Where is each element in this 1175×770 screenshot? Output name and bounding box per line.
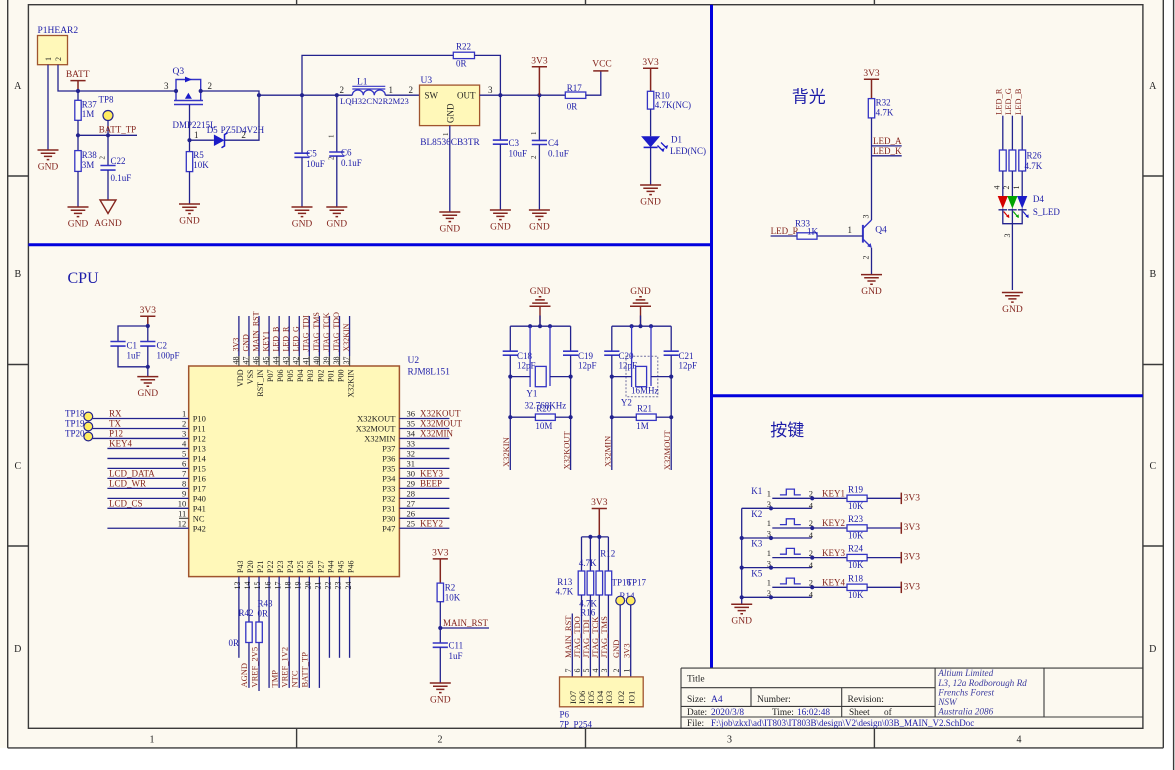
svg-text:1: 1 xyxy=(767,548,771,558)
ground GND under C1 C2 xyxy=(137,377,158,387)
pin 29 P33 of U2 right xyxy=(399,487,449,489)
svg-text:Sheet: Sheet xyxy=(849,708,870,718)
svg-text:LCD_WR: LCD_WR xyxy=(109,478,146,488)
svg-text:P22: P22 xyxy=(266,561,275,573)
wire P1 pin2 to BATT node xyxy=(58,65,176,91)
svg-text:38: 38 xyxy=(332,357,341,365)
svg-text:KEY2: KEY2 xyxy=(420,518,443,528)
pin 4 P13 of U2 left xyxy=(107,447,188,449)
svg-text:KEY2: KEY2 xyxy=(822,518,845,528)
svg-text:Number:: Number: xyxy=(757,695,791,705)
resistor R23 10K xyxy=(812,527,847,529)
pin 30 P34 of U2 right xyxy=(399,477,449,479)
pin 10 P41 of U2 left xyxy=(107,507,188,509)
svg-text:47: 47 xyxy=(241,357,250,365)
svg-text:9: 9 xyxy=(182,489,186,499)
svg-text:1: 1 xyxy=(194,130,199,140)
svg-text:17: 17 xyxy=(273,582,282,590)
svg-text:P30: P30 xyxy=(382,513,395,523)
svg-text:5: 5 xyxy=(582,669,591,673)
svg-text:6: 6 xyxy=(182,459,186,469)
node rail / R22 riser / C5 xyxy=(300,93,304,97)
svg-text:of: of xyxy=(884,707,893,718)
resistor R22 0R bypass xyxy=(302,55,453,95)
resistor R32 4.7K xyxy=(868,99,874,118)
pin 27 P31 of U2 right xyxy=(399,507,449,509)
power port VCC xyxy=(586,71,601,95)
power port 3V3 row K1 xyxy=(867,497,901,499)
svg-text:P6: P6 xyxy=(560,710,570,720)
power port 3V3 for P6 pullups xyxy=(592,509,607,537)
svg-text:0R: 0R xyxy=(229,638,240,648)
ground GND above Y2 circuit xyxy=(630,297,651,307)
svg-text:TX: TX xyxy=(109,419,121,429)
svg-text:0.1uF: 0.1uF xyxy=(341,158,362,168)
testpoint TP17 xyxy=(626,596,635,605)
svg-text:X32MIN: X32MIN xyxy=(603,436,613,467)
svg-text:C3: C3 xyxy=(509,138,520,148)
power port 3V3 row K3 xyxy=(867,557,901,559)
svg-text:2: 2 xyxy=(54,57,63,61)
pin 9 P40 of U2 left xyxy=(107,497,188,499)
svg-text:P45: P45 xyxy=(336,561,345,573)
svg-text:44: 44 xyxy=(272,357,281,365)
svg-text:1M: 1M xyxy=(82,109,95,119)
svg-text:2: 2 xyxy=(530,155,538,159)
svg-text:B: B xyxy=(14,269,21,280)
svg-text:A: A xyxy=(14,81,22,92)
ground GND under C6 xyxy=(326,207,347,217)
resistor R16 4.7K xyxy=(589,537,591,571)
net label MAIN_RST xyxy=(439,602,441,643)
svg-text:BEEP: BEEP xyxy=(420,478,442,488)
svg-text:C2: C2 xyxy=(157,341,168,351)
resistor pack R26 4.7K xyxy=(999,150,1006,171)
svg-text:C: C xyxy=(1149,461,1156,472)
svg-text:R2: R2 xyxy=(445,583,456,593)
capacitor C4 0.1uF xyxy=(538,95,540,140)
svg-text:1: 1 xyxy=(848,225,853,235)
svg-text:5: 5 xyxy=(182,449,186,459)
svg-text:C5: C5 xyxy=(306,149,317,159)
svg-text:P03: P03 xyxy=(306,370,315,382)
ground GND under U3 xyxy=(439,212,460,222)
pin 12 P42 of U2 left xyxy=(107,527,188,529)
svg-text:4.7K: 4.7K xyxy=(876,108,894,118)
capacitor C1 1uF xyxy=(118,326,148,342)
wire Y1 lower bus xyxy=(510,376,530,378)
svg-text:16:02:48: 16:02:48 xyxy=(797,708,830,718)
svg-text:P17: P17 xyxy=(193,483,206,493)
pin 23 P45 of U2 bottom xyxy=(339,577,341,658)
svg-text:36: 36 xyxy=(407,409,416,419)
svg-text:1: 1 xyxy=(767,489,771,499)
svg-text:P31: P31 xyxy=(382,503,395,513)
svg-text:JTAG_TMS: JTAG_TMS xyxy=(312,312,321,351)
svg-text:P32: P32 xyxy=(382,493,395,503)
svg-text:GND: GND xyxy=(241,334,250,352)
pin 42 LED_G of U2 top xyxy=(298,316,300,356)
pin 13 P43 of U2 bottom xyxy=(238,577,240,658)
power port 3V3 backlight xyxy=(864,79,879,98)
svg-text:Size:: Size: xyxy=(687,695,706,705)
svg-text:TP8: TP8 xyxy=(99,94,115,104)
svg-text:10K: 10K xyxy=(193,160,209,170)
wire keys common bus to ground xyxy=(741,508,743,604)
svg-text:P33: P33 xyxy=(382,483,395,493)
svg-text:2: 2 xyxy=(182,419,186,429)
svg-text:IO3: IO3 xyxy=(604,691,614,704)
svg-text:RJM8L151: RJM8L151 xyxy=(408,368,451,378)
ground GND under R5 xyxy=(179,204,200,214)
svg-text:3V3: 3V3 xyxy=(140,306,157,316)
svg-text:12: 12 xyxy=(178,518,187,528)
svg-text:JTAG_TCK: JTAG_TCK xyxy=(322,312,331,351)
svg-text:IO1: IO1 xyxy=(626,691,636,704)
ground GND under P1 xyxy=(38,150,59,160)
wire Q4 emitter to ground xyxy=(871,248,873,275)
svg-text:BATT_TP: BATT_TP xyxy=(99,124,137,134)
svg-text:13: 13 xyxy=(233,582,242,590)
pin 8 P17 of U2 left xyxy=(107,487,188,489)
svg-text:3V3: 3V3 xyxy=(904,523,921,533)
svg-text:34: 34 xyxy=(407,429,416,439)
svg-text:P37: P37 xyxy=(382,443,395,453)
crystal Y2 16MHz xyxy=(631,326,633,387)
wire R32 to Q4 collector xyxy=(871,118,873,220)
svg-text:7P_P254: 7P_P254 xyxy=(560,720,593,730)
svg-text:GND: GND xyxy=(731,617,752,627)
svg-text:R5: R5 xyxy=(193,150,204,160)
svg-text:KEY1: KEY1 xyxy=(261,331,270,351)
pin 19 P25 of U2 bottom xyxy=(298,577,300,688)
svg-text:35: 35 xyxy=(407,419,416,429)
svg-text:15: 15 xyxy=(253,582,262,590)
svg-text:10K: 10K xyxy=(848,560,864,570)
svg-text:18: 18 xyxy=(283,582,292,590)
svg-text:10: 10 xyxy=(178,499,187,509)
svg-text:4: 4 xyxy=(993,186,1002,190)
svg-text:23: 23 xyxy=(334,582,343,590)
svg-text:0R: 0R xyxy=(456,59,467,69)
pin 38 JTAG_TDO of U2 top xyxy=(339,316,341,356)
svg-text:P40: P40 xyxy=(193,493,206,503)
svg-text:P35: P35 xyxy=(382,463,395,473)
svg-text:Frenchs Forest: Frenchs Forest xyxy=(937,687,994,697)
svg-text:1M: 1M xyxy=(636,421,649,431)
svg-text:24: 24 xyxy=(344,582,353,590)
svg-text:4: 4 xyxy=(809,560,814,570)
svg-text:P07: P07 xyxy=(266,370,275,382)
svg-text:P12: P12 xyxy=(109,429,123,439)
led D1 LED(NC) xyxy=(641,136,660,147)
svg-text:TP20: TP20 xyxy=(65,428,85,438)
connector P1 HEAR2 xyxy=(38,36,68,65)
svg-text:10K: 10K xyxy=(848,531,864,541)
wire BATT_TP node xyxy=(78,134,137,136)
svg-text:4.7K: 4.7K xyxy=(556,587,574,597)
svg-text:R24: R24 xyxy=(848,544,864,554)
svg-text:25: 25 xyxy=(407,518,416,528)
svg-text:LED_R: LED_R xyxy=(282,326,291,352)
svg-text:P01: P01 xyxy=(326,370,335,382)
resistor R5 10K xyxy=(189,140,191,151)
svg-text:TP18: TP18 xyxy=(65,408,85,418)
pin 24 P46 of U2 bottom xyxy=(349,577,351,658)
svg-text:37: 37 xyxy=(342,357,351,365)
capacitor C19 12pF xyxy=(570,326,572,351)
svg-text:6: 6 xyxy=(573,669,582,673)
svg-text:R13: R13 xyxy=(557,577,573,587)
svg-text:7: 7 xyxy=(564,669,573,673)
svg-text:3: 3 xyxy=(182,429,186,439)
capacitor C6 0.1uF xyxy=(335,93,339,97)
svg-text:R18: R18 xyxy=(848,573,864,583)
svg-text:KEY4: KEY4 xyxy=(109,439,132,449)
svg-text:C4: C4 xyxy=(548,138,559,148)
pin 40 JTAG_TMS of U2 top xyxy=(318,316,320,356)
svg-text:A4: A4 xyxy=(711,695,723,705)
svg-text:P05: P05 xyxy=(286,370,295,382)
pin 6 P15 of U2 left xyxy=(107,467,188,469)
svg-text:GND: GND xyxy=(640,198,661,208)
svg-text:GND: GND xyxy=(529,223,550,233)
svg-text:BATT: BATT xyxy=(66,70,90,80)
svg-text:TMP: TMP xyxy=(269,670,279,688)
svg-text:Revision:: Revision: xyxy=(848,695,884,705)
wire Y1 top bus xyxy=(510,325,570,327)
svg-text:TP17: TP17 xyxy=(627,577,647,587)
svg-text:K3: K3 xyxy=(751,539,762,549)
svg-text:31: 31 xyxy=(407,459,416,469)
svg-text:7: 7 xyxy=(182,469,186,479)
svg-text:LQH32CN2R2M23: LQH32CN2R2M23 xyxy=(340,96,409,106)
svg-text:R42: R42 xyxy=(239,608,254,618)
svg-text:NTC: NTC xyxy=(290,670,300,687)
resistor R24 10K xyxy=(812,557,847,559)
svg-text:LCD_DATA: LCD_DATA xyxy=(109,468,155,478)
svg-text:0.1uF: 0.1uF xyxy=(111,173,132,183)
svg-text:48: 48 xyxy=(231,357,240,365)
pin 31 P35 of U2 right xyxy=(399,467,449,469)
svg-text:Q3: Q3 xyxy=(173,67,185,77)
capacitor C20 12pF xyxy=(611,326,613,351)
pin 33 P37 of U2 right xyxy=(399,447,449,449)
svg-text:4: 4 xyxy=(1017,735,1022,746)
svg-text:B: B xyxy=(1149,269,1156,280)
svg-text:X32KOUT: X32KOUT xyxy=(420,409,461,419)
resistor R17 0R xyxy=(565,92,586,98)
net label X32KIN vertical xyxy=(509,417,511,470)
svg-text:3: 3 xyxy=(862,215,871,219)
svg-text:P24: P24 xyxy=(286,561,295,573)
svg-text:GND: GND xyxy=(445,103,455,123)
svg-text:2: 2 xyxy=(208,81,213,91)
svg-text:P41: P41 xyxy=(193,503,206,513)
svg-text:LED_R: LED_R xyxy=(994,88,1004,115)
ground GND keys xyxy=(731,604,752,614)
svg-text:GND: GND xyxy=(179,217,200,227)
power port 3V3 row K5 xyxy=(867,586,901,588)
svg-text:2: 2 xyxy=(438,735,443,746)
svg-text:P42: P42 xyxy=(193,523,206,533)
svg-text:X32KIN: X32KIN xyxy=(342,323,351,351)
resistor R21 1M xyxy=(636,414,656,420)
resistor R13 4.7K xyxy=(581,537,583,571)
ground AGND (analog) xyxy=(100,200,116,214)
node BATT junction xyxy=(76,89,80,93)
svg-text:P04: P04 xyxy=(296,370,305,382)
svg-text:1: 1 xyxy=(623,669,632,673)
svg-text:3V3: 3V3 xyxy=(591,498,608,508)
svg-text:P34: P34 xyxy=(382,473,396,483)
svg-text:R37: R37 xyxy=(82,100,98,110)
svg-text:33: 33 xyxy=(407,439,416,449)
svg-text:P1HEAR2: P1HEAR2 xyxy=(38,26,79,36)
svg-text:K1: K1 xyxy=(751,486,762,496)
svg-text:39: 39 xyxy=(322,357,331,365)
svg-text:D1: D1 xyxy=(671,135,682,145)
capacitor C11 1uF xyxy=(433,643,448,647)
net label LED_K xyxy=(872,155,902,157)
svg-text:VCC: VCC xyxy=(592,60,612,70)
svg-text:P47: P47 xyxy=(382,523,395,533)
svg-text:F:\job\zkxl\ad\IT803\IT803B\de: F:\job\zkxl\ad\IT803\IT803B\design\V2\de… xyxy=(711,718,974,728)
svg-text:1: 1 xyxy=(182,409,186,419)
svg-text:C1: C1 xyxy=(127,341,138,351)
ground GND above Y1 circuit xyxy=(530,297,551,307)
svg-text:GND: GND xyxy=(292,220,313,230)
wire Y2 lower bus xyxy=(612,376,632,378)
power port 3V3 for D1 xyxy=(643,68,658,91)
svg-text:LED_B: LED_B xyxy=(1013,88,1023,115)
svg-text:JTAG_TDI: JTAG_TDI xyxy=(302,315,311,352)
svg-text:4: 4 xyxy=(591,669,600,673)
ground GND under D1 xyxy=(640,185,661,195)
svg-text:0.1uF: 0.1uF xyxy=(548,149,569,159)
svg-text:LED(NC): LED(NC) xyxy=(670,146,706,156)
svg-text:4: 4 xyxy=(809,530,814,540)
svg-text:16MHz: 16MHz xyxy=(631,386,659,396)
svg-text:2: 2 xyxy=(98,156,106,160)
node Q3 gate / D5 / R5 xyxy=(187,138,191,142)
svg-text:OUT: OUT xyxy=(457,91,476,101)
svg-text:MAIN_RST: MAIN_RST xyxy=(251,311,260,351)
pin 41 JTAG_TDI of U2 top xyxy=(308,316,310,356)
svg-text:R21: R21 xyxy=(637,404,652,414)
svg-text:SW: SW xyxy=(425,91,439,101)
svg-text:P10: P10 xyxy=(193,414,206,424)
svg-text:P13: P13 xyxy=(193,443,206,453)
svg-text:D: D xyxy=(14,644,21,655)
pin 1 P10 of U2 left xyxy=(93,418,189,420)
svg-text:R38: R38 xyxy=(82,150,98,160)
svg-text:4.7K(NC): 4.7K(NC) xyxy=(655,100,691,110)
svg-text:X32MIN: X32MIN xyxy=(420,429,453,439)
power port 3V3 CPU decoupling xyxy=(140,316,155,326)
svg-text:43: 43 xyxy=(282,357,291,365)
svg-text:45: 45 xyxy=(261,357,270,365)
resistor R38 3M xyxy=(77,135,79,150)
net label LED_A xyxy=(872,145,902,147)
svg-text:Australia 2086: Australia 2086 xyxy=(937,707,993,717)
svg-text:GND: GND xyxy=(1002,305,1023,315)
svg-text:4: 4 xyxy=(809,590,814,600)
resistor R19 10K xyxy=(812,497,847,499)
pin 35 X32MOUT of U2 right xyxy=(399,427,449,429)
svg-text:R22: R22 xyxy=(456,42,471,52)
resistor R18 10K xyxy=(812,586,847,588)
pin 34 X32MIN of U2 right xyxy=(399,437,449,439)
svg-text:GND: GND xyxy=(630,287,651,297)
svg-text:26: 26 xyxy=(407,509,416,519)
svg-text:3V3: 3V3 xyxy=(904,553,921,563)
pin 43 LED_R of U2 top xyxy=(288,316,290,356)
svg-text:MAIN_RST: MAIN_RST xyxy=(443,618,489,628)
svg-text:R19: R19 xyxy=(848,484,864,494)
ground GND under C3 xyxy=(490,210,511,220)
svg-text:4: 4 xyxy=(182,439,187,449)
pin 39 JTAG_TCK of U2 top xyxy=(328,316,330,356)
svg-text:4.7K: 4.7K xyxy=(579,558,597,568)
svg-text:30: 30 xyxy=(407,469,416,479)
ground GND under C11 xyxy=(430,683,451,693)
pin 16 P22 of U2 bottom xyxy=(268,577,270,688)
svg-text:R23: R23 xyxy=(848,514,864,524)
svg-text:K2: K2 xyxy=(751,509,762,519)
svg-text:12pF: 12pF xyxy=(517,360,536,370)
svg-text:10M: 10M xyxy=(535,421,552,431)
svg-text:10uF: 10uF xyxy=(306,159,325,169)
resistor R12 4.7K xyxy=(598,537,600,571)
svg-text:4: 4 xyxy=(809,501,814,511)
svg-text:3V3: 3V3 xyxy=(904,582,921,592)
svg-text:1uF: 1uF xyxy=(127,351,141,361)
svg-text:VDD: VDD xyxy=(236,369,245,387)
svg-text:P21: P21 xyxy=(256,561,265,573)
svg-text:JTAG_TMS: JTAG_TMS xyxy=(599,616,609,658)
svg-text:3: 3 xyxy=(600,669,609,673)
svg-text:3V3: 3V3 xyxy=(231,338,240,352)
svg-text:D: D xyxy=(1149,644,1156,655)
svg-text:46: 46 xyxy=(251,357,260,365)
wire Y2 top bus xyxy=(612,325,671,327)
svg-text:LCD_CS: LCD_CS xyxy=(109,498,143,508)
svg-text:AGND: AGND xyxy=(94,219,122,229)
svg-text:KEY4: KEY4 xyxy=(822,578,845,588)
pin 48 3V3 of U2 top xyxy=(238,316,240,356)
svg-text:2: 2 xyxy=(340,85,345,95)
capacitor C22 0.1uF xyxy=(107,135,109,165)
svg-text:100pF: 100pF xyxy=(157,351,180,361)
svg-text:X32KIN: X32KIN xyxy=(501,437,511,467)
svg-text:Altium Limited: Altium Limited xyxy=(937,668,993,678)
svg-text:3V3: 3V3 xyxy=(622,643,632,658)
pin 20 P26 of U2 bottom xyxy=(308,577,310,688)
svg-text:27: 27 xyxy=(407,499,416,509)
svg-text:KEY1: KEY1 xyxy=(822,489,845,499)
svg-text:Title: Title xyxy=(687,675,705,685)
svg-text:GND: GND xyxy=(440,225,461,235)
svg-text:BATT_TP: BATT_TP xyxy=(300,652,310,688)
svg-text:11: 11 xyxy=(178,509,186,519)
svg-text:29: 29 xyxy=(407,479,416,489)
svg-text:NSW: NSW xyxy=(937,697,958,707)
svg-text:1uF: 1uF xyxy=(449,651,463,661)
svg-text:JTAG_TDO: JTAG_TDO xyxy=(332,312,341,352)
svg-text:按键: 按键 xyxy=(770,421,804,440)
pin 44 LED_B of U2 top xyxy=(278,316,280,356)
